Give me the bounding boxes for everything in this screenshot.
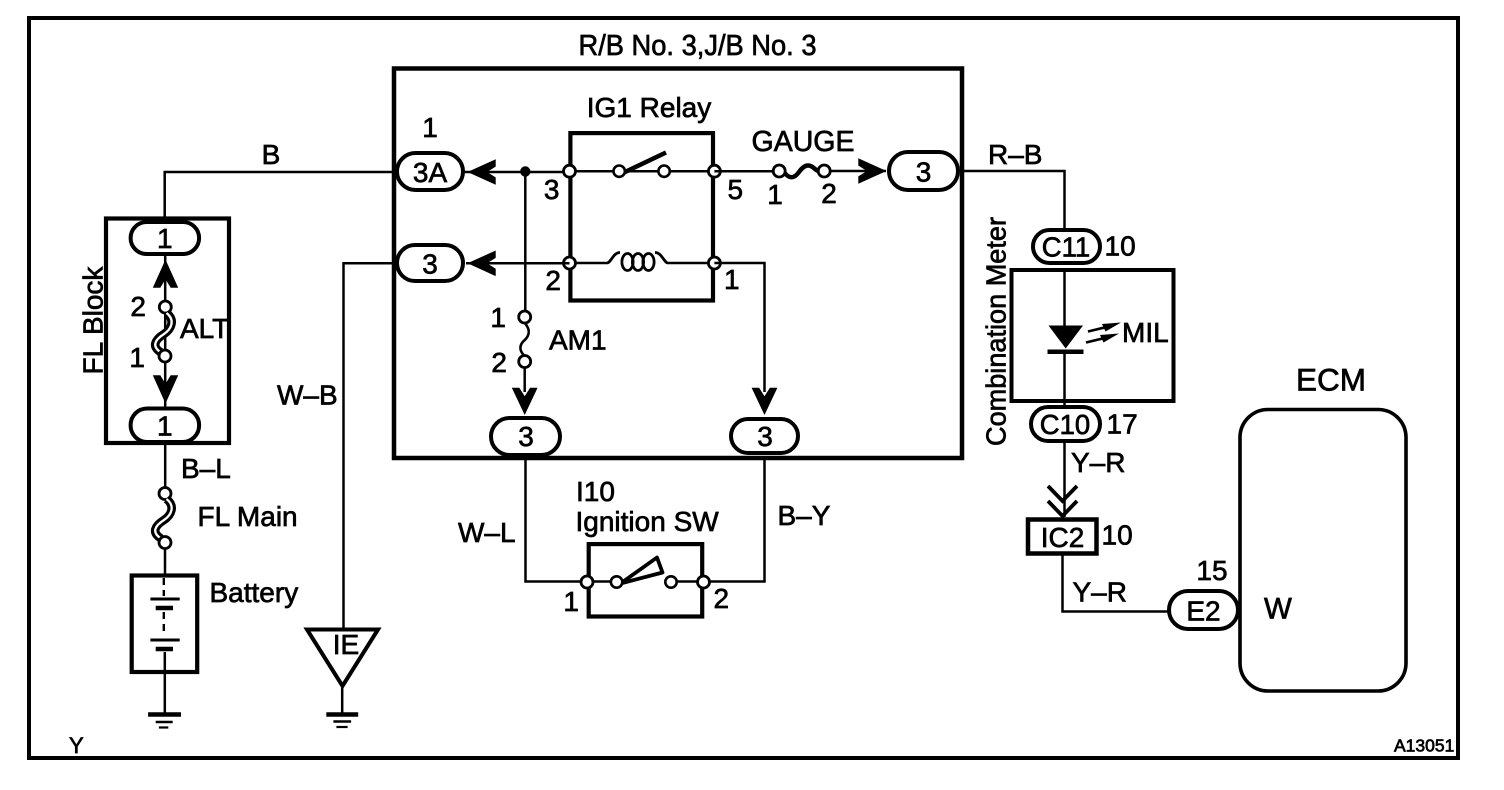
connector C11 bbox=[1033, 230, 1100, 263]
switch blade bbox=[621, 558, 663, 584]
svg-text:Combination Meter: Combination Meter bbox=[981, 217, 1012, 446]
arrow down to connector 1 bbox=[153, 375, 178, 403]
wire junction to AM1 fuse bbox=[524, 172, 527, 313]
svg-text:IG1 Relay: IG1 Relay bbox=[587, 92, 712, 123]
connector 3 (lower left) bbox=[491, 418, 560, 455]
svg-text:R/B No. 3,J/B No. 3: R/B No. 3,J/B No. 3 bbox=[579, 30, 817, 62]
ground triangle IE bbox=[307, 630, 378, 687]
LED MIL lamp bbox=[1049, 326, 1084, 349]
connector 3 (lower right) bbox=[731, 419, 798, 453]
svg-text:B–Y: B–Y bbox=[778, 500, 831, 531]
arrow into connector 3 bbox=[858, 158, 886, 184]
wire R-B to combination meter bbox=[960, 171, 1065, 230]
arrow into 3A bbox=[468, 159, 496, 185]
ignition switch box bbox=[589, 544, 703, 616]
wire B: FL Block pin 1 to 3A bbox=[165, 172, 397, 222]
svg-text:Y–R: Y–R bbox=[1073, 577, 1127, 608]
terminal 2 bbox=[159, 301, 171, 313]
svg-text:E2: E2 bbox=[1186, 596, 1220, 627]
wire W-L: connector 3 to ignition switch bbox=[526, 457, 619, 582]
combination meter box bbox=[1012, 270, 1174, 401]
connector 1 (FL Block bottom) bbox=[131, 409, 200, 443]
svg-text:A13051: A13051 bbox=[1394, 736, 1454, 756]
wire battery to ground bbox=[164, 652, 167, 713]
svg-text:3: 3 bbox=[544, 174, 560, 205]
ground symbol IE bbox=[326, 712, 358, 717]
svg-text:3: 3 bbox=[422, 249, 438, 280]
svg-text:3A: 3A bbox=[413, 157, 448, 188]
svg-text:C10: C10 bbox=[1040, 409, 1090, 440]
relay pin 5 bbox=[708, 165, 720, 177]
svg-text:1: 1 bbox=[490, 302, 506, 333]
svg-text:B–L: B–L bbox=[181, 453, 231, 484]
battery internal dashed 2 bbox=[163, 612, 165, 636]
svg-text:FL Main: FL Main bbox=[198, 501, 298, 532]
svg-text:1: 1 bbox=[157, 223, 173, 254]
svg-text:FL Block: FL Block bbox=[78, 266, 109, 375]
switch contact 1 bbox=[611, 576, 622, 587]
svg-text:1: 1 bbox=[422, 112, 438, 143]
relay switch contact a bbox=[614, 166, 625, 177]
relay/junction block box R/B No.3 bbox=[394, 69, 962, 459]
wire IE to ground bbox=[341, 686, 344, 713]
battery plate short 1 bbox=[156, 606, 173, 611]
junction node dot bbox=[520, 166, 530, 176]
relay switch contact b bbox=[658, 166, 669, 177]
connector 3A bbox=[397, 153, 463, 190]
wire into MIL lamp bbox=[1063, 270, 1066, 326]
svg-text:10: 10 bbox=[1102, 520, 1133, 551]
arrow into connector 3 bbox=[512, 388, 538, 415]
wire relay pin2 to connector 3 (left edge) bbox=[466, 262, 570, 265]
connector C10 bbox=[1031, 407, 1100, 441]
svg-text:B: B bbox=[262, 139, 281, 170]
svg-text:W–B: W–B bbox=[277, 380, 338, 411]
svg-text:1: 1 bbox=[767, 179, 783, 210]
relay coil wire left bbox=[570, 262, 608, 265]
wire relay pin1 to connector 3 (lower right) bbox=[714, 263, 764, 392]
battery plate long 1 bbox=[150, 598, 179, 601]
svg-text:AM1: AM1 bbox=[549, 325, 607, 356]
wire Y-R to IC2 bbox=[1063, 443, 1066, 517]
relay switch blade bbox=[624, 153, 666, 173]
svg-text:3: 3 bbox=[916, 157, 932, 188]
svg-text:I10: I10 bbox=[576, 476, 615, 507]
wire LED to C10 bbox=[1063, 352, 1066, 408]
arrow into connector 3 left bbox=[468, 251, 496, 277]
relay pin 3 bbox=[564, 165, 576, 177]
svg-text:Battery: Battery bbox=[210, 577, 299, 608]
switch pin 2 bbox=[698, 576, 710, 588]
battery plate long 2 bbox=[150, 639, 179, 642]
switch contact 2 bbox=[665, 576, 676, 587]
svg-text:10: 10 bbox=[1105, 231, 1136, 262]
ECM box bbox=[1240, 410, 1406, 692]
svg-text:2: 2 bbox=[130, 291, 146, 322]
relay pin 1 bbox=[708, 257, 720, 269]
fusible link FL Main terminal b bbox=[159, 537, 171, 549]
wire to battery bbox=[164, 549, 167, 577]
wire W-B to IE ground bbox=[344, 263, 398, 629]
connector 3 (R/B right) bbox=[889, 152, 958, 190]
connector 3 (left edge) bbox=[397, 245, 463, 281]
battery internal dashed lead bbox=[163, 578, 165, 596]
fuse AM1 bbox=[519, 311, 531, 323]
svg-text:C11: C11 bbox=[1042, 232, 1090, 263]
svg-text:W: W bbox=[1264, 593, 1292, 626]
relay pin 2 bbox=[564, 257, 576, 269]
svg-text:Y–R: Y–R bbox=[1071, 447, 1125, 478]
svg-text:15: 15 bbox=[1196, 555, 1227, 586]
FL Block box bbox=[106, 219, 229, 444]
svg-text:ECM: ECM bbox=[1296, 362, 1366, 398]
svg-text:5: 5 bbox=[728, 174, 744, 205]
svg-text:R–B: R–B bbox=[988, 139, 1042, 170]
connector E2 bbox=[1169, 591, 1238, 629]
fusible link ALT bbox=[155, 313, 171, 353]
switch wire right bbox=[671, 457, 765, 582]
wire fuse to connector 3 bbox=[830, 170, 886, 173]
relay switch wire pin3 to pin5 bbox=[570, 170, 715, 173]
svg-text:GAUGE: GAUGE bbox=[752, 126, 855, 158]
wire IC2 to E2 bbox=[1063, 554, 1169, 612]
junction block IC2 bbox=[1028, 520, 1097, 554]
switch pin 1 bbox=[581, 576, 593, 588]
arrow up to connector 1 bbox=[153, 260, 178, 288]
svg-text:2: 2 bbox=[821, 178, 837, 209]
terminal 1 bbox=[159, 350, 171, 362]
ground symbol battery bbox=[148, 712, 181, 717]
svg-text:1: 1 bbox=[563, 586, 579, 617]
battery plate short 2 bbox=[156, 647, 173, 652]
svg-text:Ignition SW: Ignition SW bbox=[576, 506, 720, 537]
relay coil wire right bbox=[668, 262, 715, 265]
LED light arrow 1 bbox=[1088, 326, 1110, 331]
svg-text:W–L: W–L bbox=[458, 517, 516, 548]
chevron arrows bbox=[1048, 486, 1077, 501]
relay coil bbox=[607, 253, 620, 264]
svg-text:2: 2 bbox=[491, 347, 507, 378]
fusible link FL Main bbox=[155, 499, 171, 539]
svg-text:1: 1 bbox=[157, 411, 173, 442]
svg-text:1: 1 bbox=[724, 264, 740, 295]
wire inside FL block bbox=[164, 256, 167, 490]
svg-text:Y: Y bbox=[69, 733, 84, 758]
fusible link FL Main terminal a bbox=[159, 488, 171, 500]
LED light arrow 2 bbox=[1086, 337, 1108, 342]
svg-text:2: 2 bbox=[545, 265, 561, 296]
svg-text:1: 1 bbox=[129, 342, 145, 373]
svg-text:17: 17 bbox=[1107, 409, 1138, 440]
wire 3A to relay pin 3 bbox=[462, 171, 572, 174]
wire pin5 to GAUGE fuse bbox=[714, 170, 779, 173]
svg-text:MIL: MIL bbox=[1122, 317, 1169, 348]
svg-text:2: 2 bbox=[714, 583, 730, 614]
IG1 Relay box bbox=[570, 133, 713, 300]
battery box bbox=[132, 576, 198, 673]
connector 1 (FL Block top) bbox=[131, 222, 200, 254]
svg-text:IE: IE bbox=[333, 629, 359, 660]
svg-text:IC2: IC2 bbox=[1041, 522, 1085, 553]
wire AM1 to connector 3 bbox=[523, 367, 526, 392]
svg-text:3: 3 bbox=[518, 421, 534, 452]
svg-text:ALT: ALT bbox=[180, 313, 229, 344]
svg-text:3: 3 bbox=[757, 421, 773, 452]
arrow into connector 3 bbox=[752, 388, 778, 415]
